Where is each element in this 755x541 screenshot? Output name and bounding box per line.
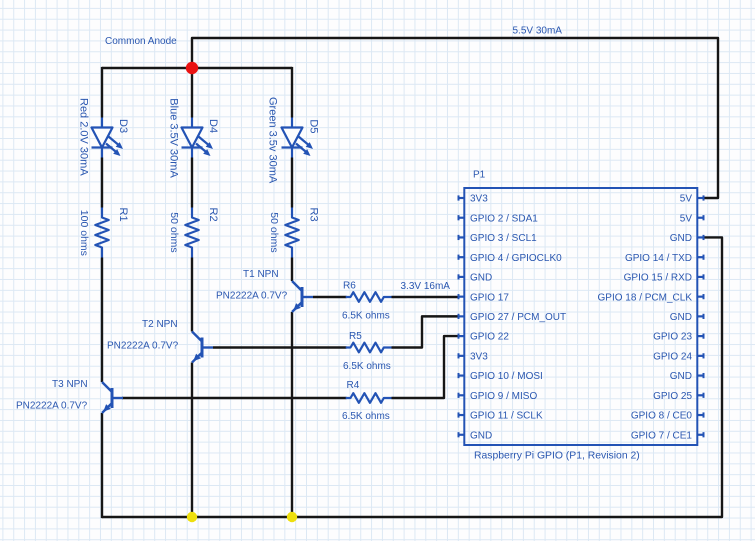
wire resistor R3 to transistor T1 collector: [291, 258, 293, 282]
svg-text:R1: R1: [117, 208, 129, 222]
svg-text:R4: R4: [347, 380, 360, 391]
resistor R3: [285, 208, 298, 258]
svg-text:50 ohms: 50 ohms: [168, 212, 180, 252]
resistor R6: [346, 292, 392, 302]
pin GND (right row 7): [670, 312, 704, 323]
pin GPIO 17 (left row 6): [458, 292, 509, 303]
label T1 NPN: [243, 269, 279, 280]
label 3.3V 16mA: [401, 281, 451, 292]
svg-text:GPIO 22: GPIO 22: [470, 332, 509, 343]
svg-text:Red 2.0V 30mA: Red 2.0V 30mA: [78, 98, 90, 176]
wire anode bus to LED D4: [191, 68, 193, 118]
wire transistor T2 base to resistor R5: [213, 346, 347, 348]
pin GPIO 24 (right row 9): [653, 351, 704, 362]
svg-text:3V3: 3V3: [470, 194, 488, 205]
resistor R5: [346, 343, 392, 353]
pin GND (right row 10): [670, 371, 704, 382]
svg-text:GPIO 18 / PCM_CLK: GPIO 18 / PCM_CLK: [598, 292, 693, 303]
wire LED D3 cathode to resistor R1: [101, 158, 103, 208]
svg-text:D3: D3: [117, 119, 129, 133]
label 6.5K ohms (R6): [342, 311, 390, 322]
pin 3V3 (left row 1): [458, 194, 488, 205]
pin GPIO 9 / MISO (left row 11): [458, 391, 537, 402]
node ground junction dot (T2 emitter): [187, 512, 197, 522]
LED D4 (blue): [182, 118, 214, 158]
label T3 NPN: [52, 379, 88, 390]
wire common-anode bus: [102, 67, 292, 69]
svg-text:5V: 5V: [680, 213, 693, 224]
label PN2222A 0.7V? (T3): [16, 401, 88, 412]
svg-text:GPIO 14 / TXD: GPIO 14 / TXD: [625, 253, 692, 264]
svg-text:T2 NPN: T2 NPN: [142, 319, 178, 330]
pin GPIO 25 (right row 11): [653, 391, 704, 402]
svg-text:GND: GND: [470, 430, 492, 441]
svg-text:GPIO 25: GPIO 25: [653, 391, 692, 402]
wire resistor R5 up to P1 pin GPIO 27: [392, 316, 459, 347]
pin GPIO 15 / RXD (right row 5): [624, 273, 704, 284]
pin GPIO 10 / MOSI (left row 10): [458, 371, 543, 382]
wire 5.5V supply: Common Anode junction up, across top, down to P1 pin 5V: [192, 38, 718, 198]
svg-text:100 ohms: 100 ohms: [78, 210, 90, 256]
label D3: [117, 119, 129, 133]
svg-text:GPIO 17: GPIO 17: [470, 292, 509, 303]
label R4: [347, 380, 360, 391]
label R3 designator: [308, 208, 320, 222]
svg-text:6.5K ohms: 6.5K ohms: [342, 311, 390, 322]
wire resistor R6 to P1 pin GPIO 17: [392, 296, 459, 298]
wire transistor T3 emitter to ground bus: [101, 413, 103, 518]
label 6.5K ohms (R4): [342, 411, 390, 422]
svg-text:GPIO 4 / GPIOCLK0: GPIO 4 / GPIOCLK0: [470, 253, 562, 264]
svg-text:GPIO 2 / SDA1: GPIO 2 / SDA1: [470, 213, 538, 224]
wire LED D4 cathode to resistor R2: [191, 158, 193, 208]
svg-text:50 ohms: 50 ohms: [268, 212, 280, 252]
svg-text:GPIO 15 / RXD: GPIO 15 / RXD: [624, 273, 692, 284]
svg-text:D4: D4: [207, 119, 219, 133]
wire resistor R2 to transistor T2 collector: [191, 258, 193, 332]
label 100 ohms: [78, 210, 90, 256]
label Green 3.5v 30mA: [267, 97, 279, 184]
svg-text:GPIO 9 / MISO: GPIO 9 / MISO: [470, 391, 537, 402]
label R5: [349, 331, 362, 342]
pin GND (right row 3): [670, 233, 704, 244]
svg-text:Raspberry Pi GPIO (P1, Revisio: Raspberry Pi GPIO (P1, Revision 2): [474, 451, 640, 462]
pin GPIO 8 / CE0 (right row 12): [631, 411, 704, 422]
pin GPIO 22 (left row 8): [458, 332, 509, 343]
svg-text:T3 NPN: T3 NPN: [52, 379, 88, 390]
svg-text:GPIO 23: GPIO 23: [653, 332, 692, 343]
label 6.5K ohms (R5): [343, 361, 391, 372]
pin 3V3 (left row 9): [458, 351, 488, 362]
label T2 NPN: [142, 319, 178, 330]
pin 5V (right row 1): [680, 194, 704, 205]
label PN2222A 0.7V? (T1): [216, 291, 288, 302]
svg-text:PN2222A 0.7V?: PN2222A 0.7V?: [107, 341, 179, 352]
label Red 2.0V 30mA: [78, 98, 90, 176]
node Common Anode junction dot: [186, 62, 198, 74]
resistor R2: [185, 208, 198, 258]
wire transistor T2 emitter to ground bus: [191, 363, 193, 518]
svg-text:P1: P1: [473, 170, 486, 181]
label 5.5V 30mA: [513, 26, 563, 37]
wire transistor T1 base to resistor R6: [313, 296, 347, 298]
transistor T1 (NPN PN2222A): [292, 281, 313, 312]
pin GND (left row 13): [458, 430, 492, 441]
svg-text:3V3: 3V3: [470, 351, 488, 362]
svg-text:GPIO 8 / CE0: GPIO 8 / CE0: [631, 411, 693, 422]
wire resistor R1 to transistor T3 collector: [101, 258, 103, 383]
pin GPIO 2 / SDA1 (left row 2): [458, 213, 538, 224]
pin GPIO 3 / SCL1 (left row 3): [458, 233, 537, 244]
svg-text:D5: D5: [308, 119, 320, 133]
label 50 ohms (R3): [268, 212, 280, 252]
LED D3 (red): [92, 118, 124, 158]
connector P1 outline (Raspberry Pi GPIO header): [464, 188, 697, 445]
label D5: [308, 119, 320, 133]
svg-text:R2: R2: [207, 208, 219, 222]
label R2 designator: [207, 208, 219, 222]
label D4: [207, 119, 219, 133]
wire anode bus to LED D3: [101, 67, 103, 118]
svg-text:Common Anode: Common Anode: [105, 36, 177, 47]
svg-text:3.3V 16mA: 3.3V 16mA: [401, 281, 451, 292]
svg-text:GPIO 24: GPIO 24: [653, 351, 692, 362]
label Blue 3.5V 30mA: [168, 98, 180, 178]
pin GPIO 14 / TXD (right row 4): [625, 253, 704, 264]
svg-text:R6: R6: [343, 281, 356, 292]
label Raspberry Pi GPIO (P1, Revision 2): [474, 451, 640, 462]
svg-text:GPIO 3 / SCL1: GPIO 3 / SCL1: [470, 233, 537, 244]
node ground junction dot (T1 emitter): [287, 512, 297, 522]
pin GPIO 7 / CE1 (right row 13): [631, 430, 704, 441]
label PN2222A 0.7V? (T2): [107, 341, 179, 352]
svg-text:6.5K ohms: 6.5K ohms: [343, 361, 391, 372]
resistor R4: [346, 393, 392, 403]
svg-text:Blue 3.5V 30mA: Blue 3.5V 30mA: [168, 98, 180, 178]
pin GPIO 18 / PCM_CLK (right row 6): [598, 292, 704, 303]
svg-text:GPIO 7 / CE1: GPIO 7 / CE1: [631, 430, 693, 441]
svg-text:GPIO 27 / PCM_OUT: GPIO 27 / PCM_OUT: [470, 312, 566, 323]
pin GPIO 4 / GPIOCLK0 (left row 4): [458, 253, 562, 264]
pin GND (left row 5): [458, 273, 492, 284]
label R1 designator: [117, 208, 129, 222]
label 50 ohms (R2): [168, 212, 180, 252]
transistor T3 (NPN PN2222A): [102, 382, 123, 413]
svg-text:PN2222A 0.7V?: PN2222A 0.7V?: [216, 291, 288, 302]
wire transistor T1 emitter to ground bus: [291, 312, 293, 517]
pin GPIO 27 / PCM_OUT (left row 7): [458, 312, 566, 323]
pin GPIO 11 / SCLK (left row 12): [458, 411, 543, 422]
svg-text:GND: GND: [470, 273, 492, 284]
svg-text:GPIO 10 / MOSI: GPIO 10 / MOSI: [470, 371, 543, 382]
svg-text:GND: GND: [670, 233, 692, 244]
svg-text:6.5K ohms: 6.5K ohms: [342, 411, 390, 422]
wire transistor T3 base to resistor R4: [122, 397, 347, 399]
svg-text:5.5V 30mA: 5.5V 30mA: [513, 26, 563, 37]
label P1: [473, 170, 486, 181]
pin GPIO 23 (right row 8): [653, 332, 704, 343]
svg-text:R5: R5: [349, 331, 362, 342]
svg-text:Green 3.5v 30mA: Green 3.5v 30mA: [267, 97, 279, 184]
wire ground bus along bottom and up to P1 pin GND: [102, 237, 722, 517]
svg-text:T1 NPN: T1 NPN: [243, 269, 279, 280]
svg-text:GND: GND: [670, 371, 692, 382]
svg-text:5V: 5V: [680, 194, 693, 205]
svg-text:GND: GND: [670, 312, 692, 323]
LED D5 (green): [282, 118, 314, 158]
transistor T2 (NPN PN2222A): [192, 332, 213, 363]
svg-text:GPIO 11 / SCLK: GPIO 11 / SCLK: [470, 411, 543, 422]
svg-text:PN2222A 0.7V?: PN2222A 0.7V?: [16, 401, 88, 412]
label R6: [343, 281, 356, 292]
wire anode bus to LED D5: [291, 67, 293, 118]
label Common Anode: [105, 36, 177, 47]
resistor R1: [95, 208, 108, 258]
wire LED D5 cathode to resistor R3: [291, 158, 293, 208]
pin 5V (right row 2): [680, 213, 704, 224]
wire resistor R4 up to P1 pin GPIO 22: [392, 336, 459, 398]
svg-text:R3: R3: [308, 208, 320, 222]
